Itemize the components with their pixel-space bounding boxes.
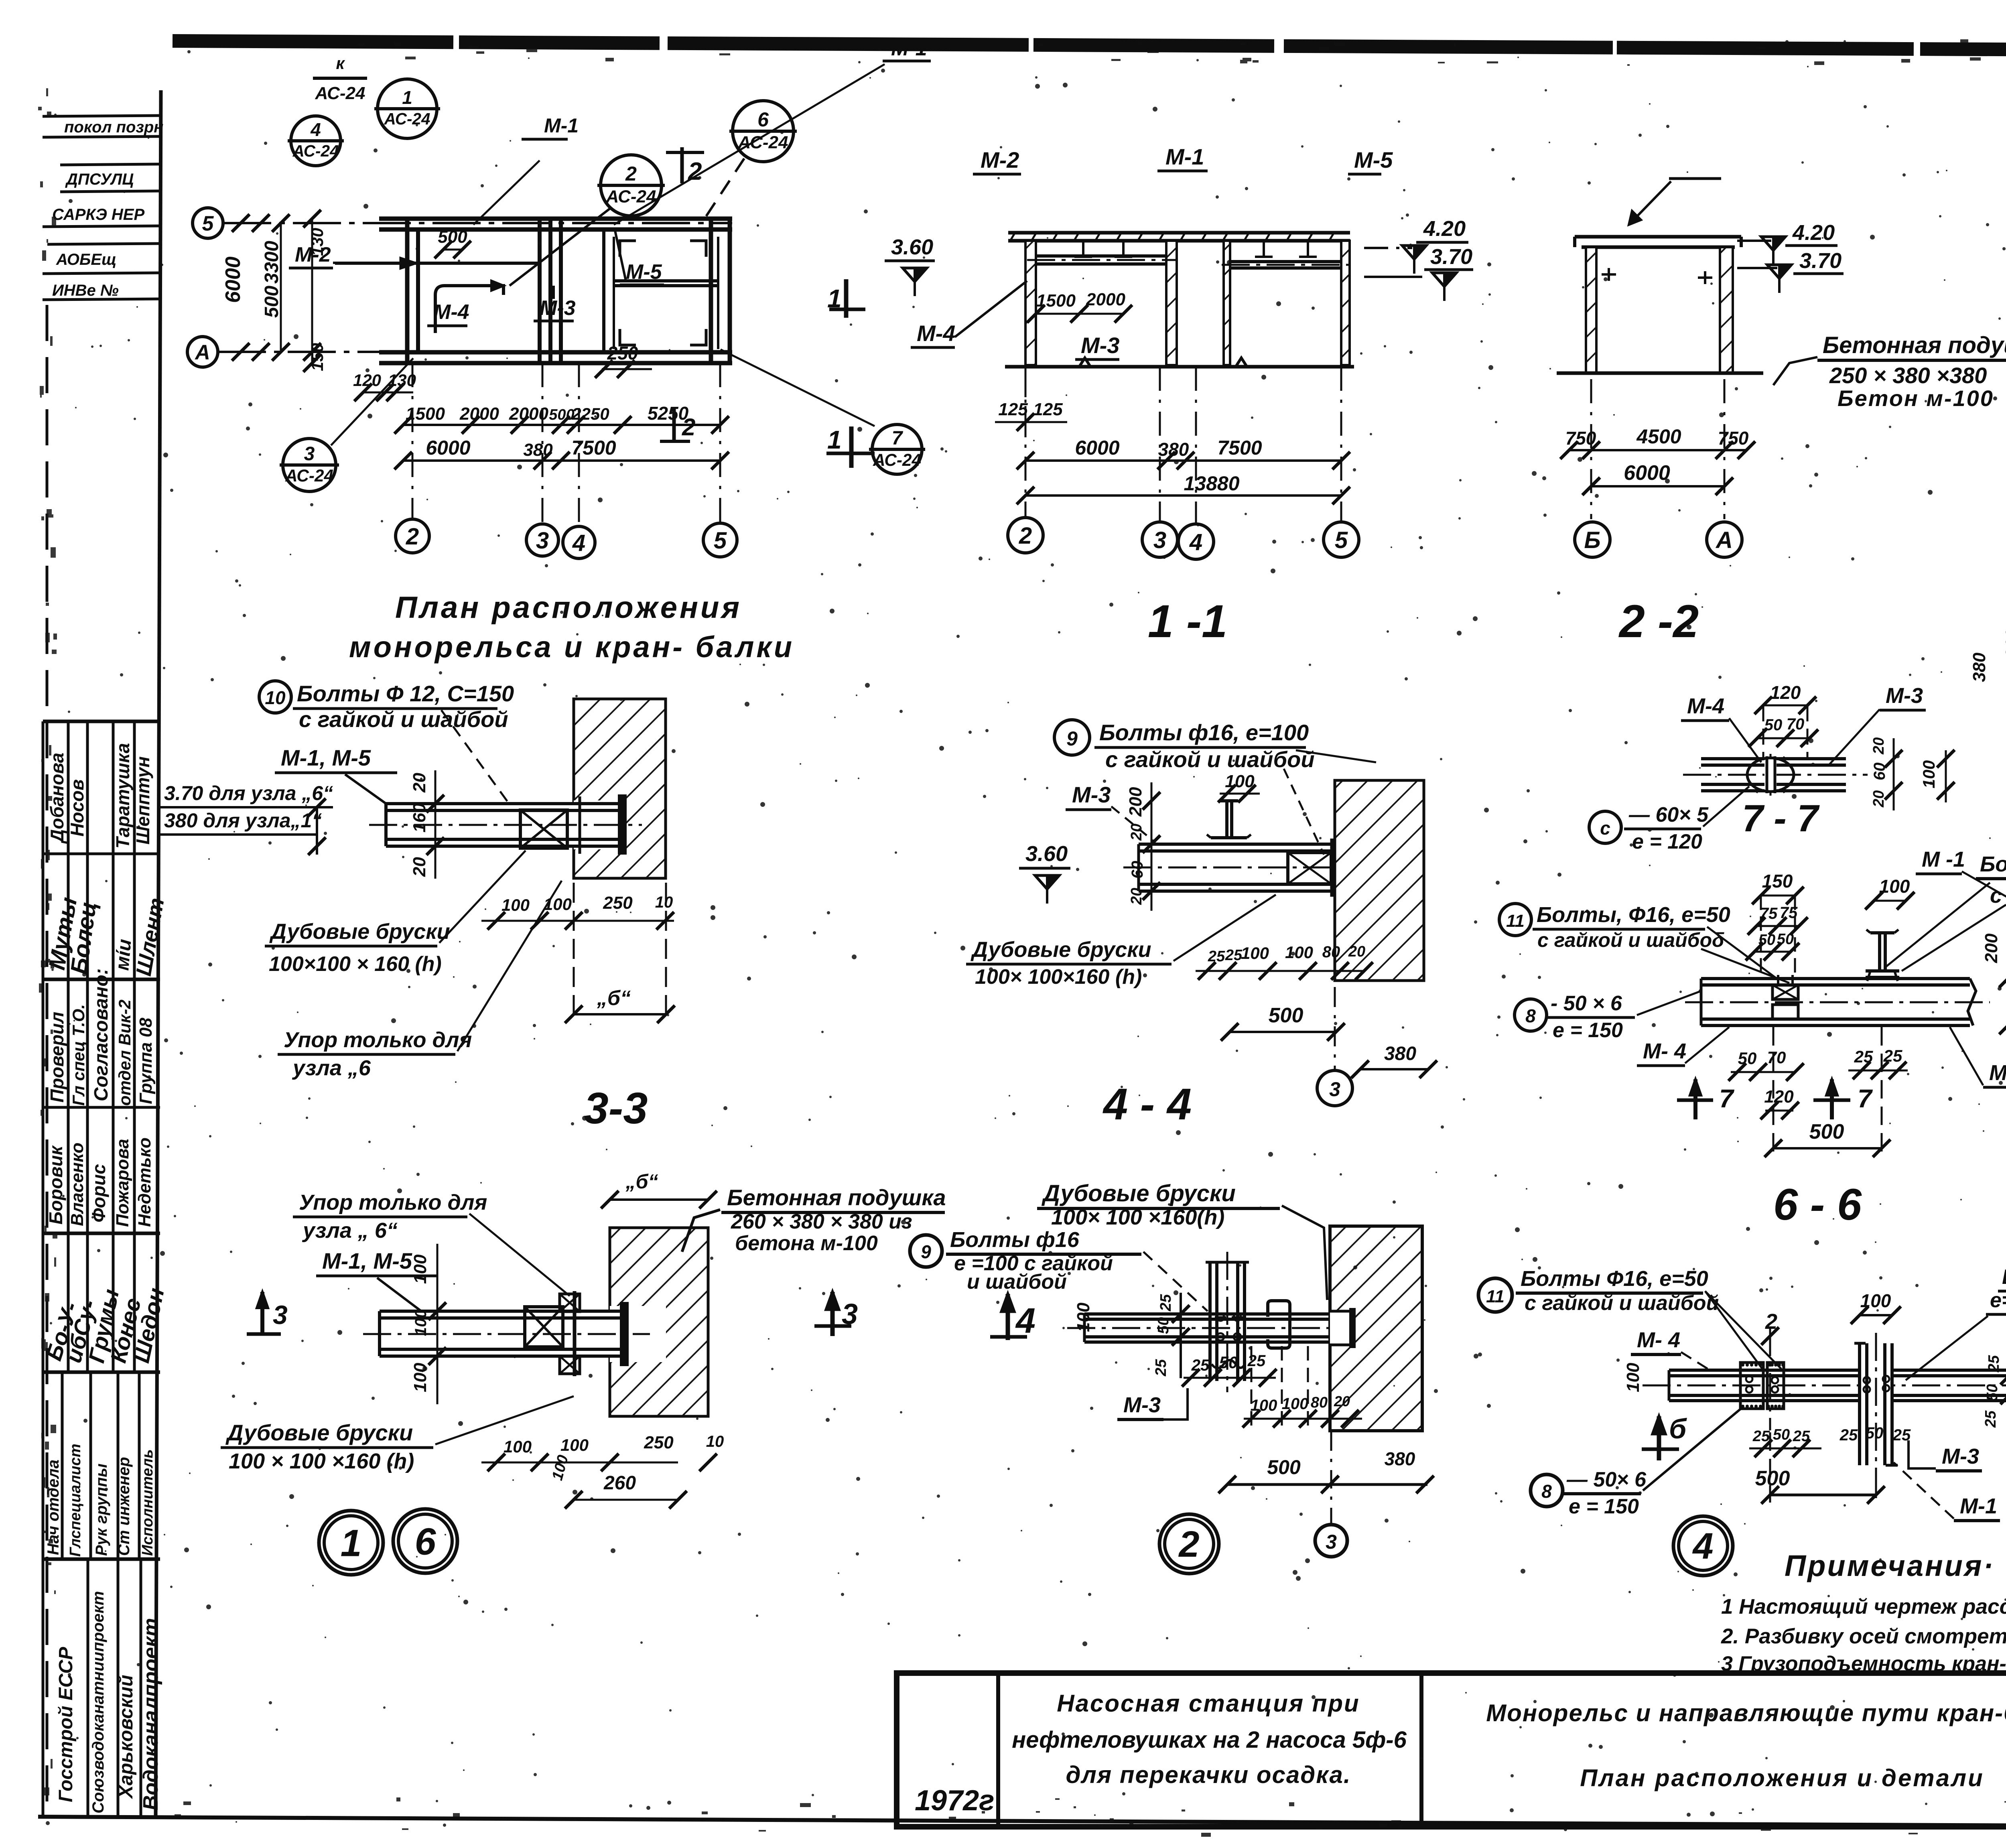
svg-text:М-4: М-4 [433, 301, 469, 324]
svg-text:100: 100 [501, 896, 530, 914]
svg-text:13880: 13880 [1184, 472, 1239, 495]
svg-text:Болты Ф 12, С=150: Болты Ф 12, С=150 [297, 681, 514, 706]
svg-text:„б“: „б“ [625, 1170, 658, 1193]
svg-text:7500: 7500 [1217, 437, 1262, 459]
svg-text:отдел Вик-2: отдел Вик-2 [115, 999, 134, 1106]
svg-text:7: 7 [1719, 1084, 1735, 1113]
svg-text:50: 50 [1219, 1353, 1238, 1372]
svg-text:1: 1 [827, 284, 842, 313]
svg-text:М-4: М-4 [917, 321, 955, 346]
svg-text:100: 100 [504, 1437, 532, 1456]
svg-text:Недетько: Недетько [135, 1137, 154, 1227]
svg-text:10: 10 [265, 687, 286, 708]
svg-text:4: 4 [572, 530, 585, 556]
svg-text:М-1: М-1 [544, 114, 579, 137]
svg-text:20: 20 [1334, 1393, 1350, 1409]
svg-text:Дубовые бруски: Дубовые бруски [269, 920, 450, 944]
svg-text:100: 100 [1241, 944, 1269, 963]
svg-text:20: 20 [410, 857, 429, 877]
svg-text:М- 4: М- 4 [1637, 1328, 1680, 1352]
svg-text:Боровик: Боровик [45, 1145, 66, 1225]
svg-text:Водоканалпроект: Водоканалпроект [139, 1618, 162, 1810]
svg-text:М-1: М-1 [1960, 1494, 1997, 1518]
svg-text:Насосная станция при: Насосная станция при [1057, 1690, 1360, 1717]
svg-text:— 60× 5: — 60× 5 [1628, 803, 1709, 827]
svg-text:Монорельс и направляющие пути: Монорельс и направляющие пути кран-балки [1486, 1700, 2006, 1726]
svg-text:Союзводоканатниипроект: Союзводоканатниипроект [89, 1591, 107, 1813]
svg-text:160: 160 [410, 803, 429, 833]
svg-text:Таратушка: Таратушка [112, 743, 133, 849]
svg-text:6000: 6000 [1624, 461, 1670, 485]
svg-text:Шепптун: Шепптун [132, 756, 153, 845]
svg-text:10: 10 [655, 894, 673, 911]
svg-text:2. Разбивку осей смотреть ч: 2. Разбивку осей смотреть ча плане [1721, 1625, 2006, 1648]
svg-text:мίи: мίи [112, 938, 136, 971]
svg-text:М-3: М-3 [1886, 684, 1923, 708]
svg-text:5250: 5250 [648, 403, 689, 424]
svg-text:300: 300 [2002, 628, 2006, 658]
svg-text:200: 200 [1982, 933, 2001, 963]
svg-text:Болты ф16, е=100: Болты ф16, е=100 [1099, 720, 1309, 745]
svg-text:60: 60 [1871, 763, 1888, 781]
svg-text:100: 100 [1074, 1302, 1093, 1332]
svg-text:20: 20 [1128, 824, 1145, 841]
svg-text:ДПСУЛЦ: ДПСУЛЦ [65, 171, 134, 188]
svg-text:Проверил: Проверил [47, 1012, 67, 1103]
svg-text:Болты, Ф16, е=50: Болты, Ф16, е=50 [1537, 903, 1730, 927]
svg-text:4: 4 [310, 119, 321, 140]
svg-text:380: 380 [523, 440, 553, 460]
svg-text:с гайкой и шайбоδ: с гайкой и шайбоδ [1537, 929, 1724, 951]
svg-text:50: 50 [1738, 1049, 1757, 1068]
svg-text:- 50 × 6: - 50 × 6 [1551, 992, 1622, 1015]
svg-text:Гл спец Т.О.: Гл спец Т.О. [69, 1004, 88, 1106]
svg-text:Согласовано:: Согласовано: [91, 968, 112, 1101]
svg-text:с гайкой и шайбой: с гайкой и шайбой [1105, 747, 1315, 772]
svg-text:АС-24: АС-24 [873, 451, 921, 469]
svg-text:3: 3 [1326, 1531, 1337, 1553]
svg-text:100: 100 [410, 1363, 430, 1392]
svg-text:500: 500 [438, 227, 467, 247]
svg-text:План расположения и детали: План расположения и детали [1580, 1765, 1984, 1791]
svg-text:Рук группы: Рук группы [93, 1464, 110, 1556]
svg-text:Дубовые бруски: Дубовые бруски [225, 1420, 413, 1445]
svg-text:130: 130 [308, 228, 327, 256]
svg-text:Ст инженер: Ст инженер [115, 1457, 133, 1556]
svg-text:АС-24: АС-24 [384, 110, 430, 128]
svg-text:100: 100 [1879, 876, 1910, 897]
svg-text:М- 4: М- 4 [1643, 1039, 1686, 1063]
svg-text:САРКЭ НЕР: САРКЭ НЕР [52, 206, 144, 223]
svg-text:100: 100 [410, 1254, 430, 1284]
svg-text:20: 20 [1348, 943, 1365, 960]
svg-text:Дубовые бруски: Дубовые бруски [971, 938, 1151, 962]
svg-text:е = 150: е = 150 [1553, 1019, 1623, 1042]
svg-text:500: 500 [549, 406, 574, 423]
svg-text:380: 380 [1969, 652, 1989, 682]
svg-text:узла „6: узла „6 [292, 1056, 371, 1080]
svg-text:25: 25 [1247, 1352, 1266, 1370]
svg-text:Упор только для: Упор только для [284, 1028, 472, 1052]
svg-text:Болты; Ф 16: Болты; Ф 16 [2002, 1265, 2006, 1289]
svg-text:бетона м-100: бетона м-100 [735, 1232, 878, 1255]
svg-text:2: 2 [1765, 1310, 1777, 1334]
svg-text:20: 20 [1870, 737, 1887, 755]
svg-text:б: б [1669, 1413, 1687, 1444]
svg-text:монорельса и кран- балки: монорельса и кран- балки [349, 630, 794, 664]
svg-text:Примечания·: Примечания· [1785, 1549, 1995, 1582]
svg-text:6: 6 [415, 1520, 437, 1563]
svg-text:25: 25 [1986, 1355, 2002, 1373]
svg-text:3: 3 [842, 1298, 858, 1330]
svg-text:100× 100×160 (h): 100× 100×160 (h) [975, 965, 1142, 989]
svg-text:25: 25 [1157, 1294, 1174, 1312]
svg-text:узла „ 6“: узла „ 6“ [302, 1218, 398, 1243]
svg-text:11: 11 [1486, 1287, 1504, 1306]
svg-text:М-3: М-3 [1081, 333, 1119, 358]
svg-text:1 -1: 1 -1 [1148, 596, 1227, 647]
svg-text:М-4: М-4 [1687, 694, 1724, 718]
svg-text:50: 50 [1155, 1317, 1172, 1334]
svg-text:100: 100 [560, 1436, 589, 1454]
svg-text:Форис: Форис [88, 1164, 109, 1223]
svg-text:9: 9 [1066, 727, 1078, 750]
svg-text:М-5: М-5 [1354, 147, 1393, 173]
svg-text:Бетонная подушка: Бетонная подушка [727, 1185, 946, 1210]
svg-text:8: 8 [1541, 1481, 1552, 1502]
svg-text:6000: 6000 [221, 256, 245, 303]
svg-text:20: 20 [1128, 888, 1145, 905]
svg-text:М-3: М-3 [1123, 1393, 1161, 1417]
svg-text:5: 5 [714, 528, 727, 554]
svg-text:Нач отдела: Нач отдела [45, 1460, 62, 1555]
svg-text:с гайкой и шайбой: с гайкой и шайбой [1525, 1292, 1719, 1315]
svg-text:3: 3 [304, 443, 315, 465]
svg-text:АС-24: АС-24 [315, 83, 365, 103]
svg-text:5: 5 [1335, 527, 1348, 553]
svg-text:Болты Ф16, е=50: Болты Ф16, е=50 [1521, 1267, 1708, 1291]
svg-text:500: 500 [261, 286, 282, 318]
svg-text:с гайкой и шайбой: с гайкой и шайбой [299, 707, 508, 732]
svg-text:АОБЕщ: АОБЕщ [56, 251, 116, 268]
svg-text:80: 80 [1322, 943, 1340, 961]
svg-text:500: 500 [1755, 1467, 1790, 1490]
svg-text:3.60: 3.60 [891, 235, 933, 259]
svg-text:3: 3 [536, 528, 549, 554]
svg-text:60: 60 [1129, 861, 1146, 879]
svg-text:70: 70 [1787, 715, 1805, 733]
svg-text:20: 20 [410, 773, 429, 793]
svg-text:250: 250 [603, 893, 633, 913]
svg-text:3-3: 3-3 [584, 1084, 648, 1133]
svg-text:2250: 2250 [571, 404, 609, 423]
svg-text:70: 70 [1767, 1048, 1786, 1067]
svg-text:50: 50 [1773, 1426, 1790, 1443]
svg-text:3.70 для узла „6“: 3.70 для узла „6“ [164, 782, 333, 804]
svg-text:М-1: М-1 [1165, 144, 1204, 169]
svg-text:9: 9 [921, 1241, 931, 1262]
svg-text:М-1, М-5: М-1, М-5 [281, 745, 371, 770]
svg-text:е = 120: е = 120 [1632, 830, 1702, 853]
svg-text:50: 50 [1866, 1424, 1884, 1442]
svg-text:Исполнитель: Исполнитель [139, 1449, 156, 1556]
svg-text:25: 25 [1153, 1359, 1169, 1377]
svg-text:4: 4 [1189, 529, 1202, 555]
svg-text:Бетонная подушка: Бетонная подушка [1823, 332, 2006, 358]
svg-text:2 -2: 2 -2 [1618, 596, 1699, 647]
svg-text:100: 100 [1919, 760, 1938, 788]
svg-text:Группа 08: Группа 08 [136, 1017, 156, 1104]
svg-text:2000: 2000 [1086, 290, 1125, 309]
svg-text:2: 2 [406, 524, 419, 550]
svg-text:200: 200 [1126, 787, 1145, 817]
svg-text:6: 6 [757, 108, 769, 131]
svg-text:Носов: Носов [67, 779, 87, 837]
svg-text:260 × 380 × 380 из: 260 × 380 × 380 из [731, 1210, 912, 1233]
svg-text:А: А [194, 341, 210, 364]
svg-text:М-2: М-2 [981, 147, 1019, 173]
svg-text:Харьковский: Харьковский [116, 1675, 137, 1799]
svg-text:25: 25 [1840, 1426, 1858, 1444]
svg-text:100: 100 [1282, 1395, 1309, 1413]
svg-text:— 50× 6: — 50× 6 [1566, 1468, 1647, 1491]
svg-text:10: 10 [706, 1433, 724, 1450]
svg-text:М-1: М-1 [891, 37, 927, 60]
svg-text:380: 380 [1158, 439, 1189, 460]
svg-text:1 Настоящий чертеж рассматри: 1 Настоящий чертеж рассматривать совмест… [1721, 1595, 2006, 1619]
svg-text:100: 100 [1623, 1363, 1643, 1392]
svg-text:100: 100 [412, 1309, 430, 1336]
svg-text:250: 250 [644, 1433, 674, 1452]
svg-text:М-5: М-5 [626, 260, 662, 284]
svg-text:2: 2 [688, 158, 702, 185]
svg-text:5: 5 [202, 212, 214, 236]
svg-text:покол позрн: покол позрн [64, 118, 163, 136]
svg-text:8: 8 [1525, 1005, 1536, 1026]
svg-text:Госстрой ЕССР: Госстрой ЕССР [55, 1647, 77, 1802]
svg-text:260: 260 [603, 1472, 636, 1494]
svg-text:М-3: М-3 [1989, 1061, 2006, 1085]
svg-text:6000: 6000 [426, 437, 470, 459]
svg-text:100: 100 [549, 1453, 572, 1482]
svg-text:АС-24: АС-24 [292, 142, 339, 160]
svg-text:380 для узла„1“: 380 для узла„1“ [164, 809, 322, 832]
svg-text:4 - 4: 4 - 4 [1102, 1080, 1192, 1129]
svg-text:6 - 6: 6 - 6 [1773, 1180, 1862, 1229]
svg-text:380: 380 [1384, 1043, 1416, 1064]
svg-text:125: 125 [1033, 400, 1063, 419]
svg-text:750: 750 [1718, 428, 1749, 449]
svg-text:500: 500 [1267, 1456, 1301, 1478]
svg-text:6000: 6000 [1075, 437, 1119, 459]
svg-text:АС-24: АС-24 [285, 466, 333, 485]
svg-text:М-3: М-3 [1072, 782, 1111, 807]
svg-text:М -1: М -1 [1922, 847, 1965, 871]
svg-text:Пожарова: Пожарова [113, 1139, 132, 1227]
svg-text:4: 4 [1015, 1301, 1035, 1340]
svg-text:125: 125 [998, 400, 1028, 419]
svg-text:50: 50 [1764, 716, 1783, 734]
svg-text:М-3: М-3 [540, 296, 576, 320]
svg-text:Дубовые бруски: Дубовые бруски [1041, 1180, 1236, 1206]
svg-text:100: 100 [1251, 1397, 1277, 1414]
svg-text:1: 1 [341, 1522, 362, 1564]
svg-text:4.20: 4.20 [1792, 221, 1835, 245]
svg-text:2: 2 [625, 162, 637, 185]
svg-text:120: 120 [1770, 682, 1801, 703]
svg-text:25: 25 [1225, 947, 1243, 964]
svg-text:к: к [336, 54, 345, 73]
svg-text:Бетон м-100: Бетон м-100 [1837, 386, 1994, 411]
svg-text:100× 100 ×160(h): 100× 100 ×160(h) [1051, 1205, 1224, 1229]
svg-text:25: 25 [1982, 1410, 1999, 1428]
svg-text:3: 3 [1153, 527, 1166, 553]
svg-text:25: 25 [1208, 948, 1225, 965]
svg-text:11: 11 [1506, 911, 1525, 931]
svg-text:М-1, М-5: М-1, М-5 [322, 1248, 412, 1273]
svg-text:3300: 3300 [261, 241, 282, 284]
svg-text:3: 3 [1329, 1078, 1340, 1101]
svg-text:1: 1 [402, 87, 412, 108]
svg-text:Б: Б [1584, 527, 1600, 553]
svg-text:7: 7 [892, 428, 904, 449]
svg-text:1: 1 [827, 425, 842, 454]
svg-text:нефтеловушках на 2 насоса 5ф-6: нефтеловушках на 2 насоса 5ф-6 [1012, 1727, 1407, 1753]
svg-text:3: 3 [273, 1300, 288, 1330]
svg-text:7: 7 [1858, 1084, 1873, 1113]
svg-text:500: 500 [1809, 1120, 1844, 1143]
svg-text:250 × 380 ×380: 250 × 380 ×380 [1829, 363, 1987, 388]
svg-text:4500: 4500 [1636, 425, 1681, 448]
svg-text:25: 25 [1191, 1357, 1210, 1374]
svg-text:50: 50 [1984, 1384, 2001, 1401]
svg-text:Упор только для: Упор только для [299, 1190, 487, 1214]
svg-text:120: 120 [1764, 1087, 1794, 1107]
svg-text:80: 80 [1311, 1394, 1328, 1411]
svg-text:Власенко: Власенко [67, 1143, 87, 1226]
svg-text:2: 2 [1019, 523, 1032, 549]
svg-text:380: 380 [1385, 1448, 1415, 1469]
svg-text:с: с [1600, 818, 1610, 839]
svg-text:Глспециалист: Глспециалист [67, 1444, 84, 1557]
svg-text:Болты Ф 16 е=100: Болты Ф 16 е=100 [1980, 852, 2006, 876]
svg-text:2: 2 [1178, 1524, 1199, 1565]
svg-text:2000: 2000 [459, 404, 499, 424]
svg-text:для перекачки осадка.: для перекачки осадка. [1066, 1761, 1351, 1788]
svg-text:М-3: М-3 [1942, 1444, 1979, 1468]
svg-text:Болты ф16: Болты ф16 [950, 1228, 1080, 1252]
svg-text:3.60: 3.60 [1025, 842, 1068, 866]
svg-text:и шайбой: и шайбой [967, 1270, 1067, 1294]
svg-text:3.70: 3.70 [1799, 249, 1842, 273]
svg-text:е = 150: е = 150 [1569, 1495, 1639, 1518]
svg-text:20: 20 [1870, 790, 1887, 808]
svg-text:500: 500 [1269, 1004, 1303, 1027]
svg-text:100×100 × 160 (h): 100×100 × 160 (h) [269, 952, 442, 976]
svg-text:е=100 с гайкой: е=100 с гайкой [1990, 1289, 2006, 1312]
svg-text:4: 4 [1692, 1526, 1713, 1567]
svg-text:с гайкой и шайбой: с гайкой и шайбой [1990, 883, 2006, 908]
svg-text:Шлент: Шлент [132, 896, 169, 978]
svg-text:100 × 100 ×160 (h): 100 × 100 ×160 (h) [229, 1449, 414, 1473]
svg-text:3 Грузоподъемность кран-балк: 3 Грузоподъемность кран-балки Q = 10т, м… [1721, 1652, 2006, 1675]
svg-text:7 - 7: 7 - 7 [1742, 797, 1820, 840]
svg-text:4.20: 4.20 [1423, 217, 1466, 241]
svg-text:100: 100 [1285, 943, 1313, 962]
svg-text:План расположения: План расположения [395, 591, 742, 625]
svg-text:А: А [1715, 527, 1733, 553]
svg-text:„б“: „б“ [597, 987, 631, 1010]
svg-text:3.70: 3.70 [1430, 245, 1472, 269]
svg-text:ИНВе №: ИНВе № [52, 282, 119, 299]
